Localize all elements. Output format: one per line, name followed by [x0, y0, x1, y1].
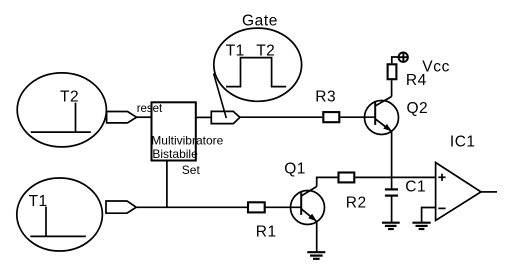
transistor Q1 — [291, 187, 325, 225]
svg-text:Q2: Q2 — [407, 100, 429, 117]
label Bistabile — [152, 147, 198, 161]
net flag gate output — [211, 111, 240, 123]
T2 waveform — [31, 103, 91, 133]
label T1 (gate) — [226, 43, 245, 60]
svg-text:R2: R2 — [346, 195, 367, 212]
svg-text:T1: T1 — [29, 193, 48, 210]
resistor R4 — [388, 64, 397, 79]
wire R1 to Q1 base — [265, 206, 301, 208]
transistor Q2 — [365, 97, 399, 135]
power Vcc symbol — [399, 53, 408, 62]
svg-text:R3: R3 — [315, 89, 336, 106]
ground (op-amp input) — [412, 223, 430, 229]
svg-text:Set: Set — [182, 163, 201, 177]
op-amp plus sign — [438, 174, 445, 181]
label Gate — [242, 12, 278, 29]
svg-text:reset: reset — [137, 103, 163, 115]
multivibrator block U1 — [152, 102, 196, 160]
wire R2 to op-amp input — [355, 176, 435, 178]
label IC1 — [450, 134, 476, 151]
svg-text:Bistabile: Bistabile — [152, 147, 198, 161]
resistor R3 — [323, 112, 339, 122]
wire op-amp inverting input to ground — [422, 208, 436, 223]
svg-text:Vcc: Vcc — [422, 59, 450, 76]
svg-text:Gate: Gate — [242, 12, 278, 29]
label R4 — [406, 72, 427, 89]
Q1 emitter arrow — [308, 214, 317, 222]
wire flag to reset pin — [137, 116, 152, 118]
label T1 — [29, 193, 48, 210]
label C1 — [405, 179, 426, 196]
net flag T2 input — [107, 112, 137, 123]
ground (Q1 emitter) — [307, 252, 325, 259]
label R1 — [256, 223, 277, 240]
svg-text:C1: C1 — [405, 179, 426, 196]
gate annotation bubble — [214, 28, 302, 101]
label R2 — [346, 195, 367, 212]
wire Q2 emitter to C1 node — [391, 131, 393, 189]
wire Q1 collector up to R2 — [317, 177, 338, 186]
resistor R2 — [339, 173, 355, 183]
label Set — [182, 163, 201, 177]
Q2 emitter arrow — [383, 124, 392, 131]
wire flag to R3 — [240, 116, 322, 118]
capacitor C1 — [385, 189, 398, 195]
wire C1 to ground — [391, 196, 393, 223]
label Q2 — [407, 100, 429, 117]
net flag T1 input — [106, 201, 136, 213]
label Multivibratore — [151, 134, 223, 148]
label reset — [137, 103, 163, 115]
node T1 source bubble — [17, 178, 103, 251]
gate pulse waveform — [226, 58, 286, 87]
label Vcc — [422, 59, 450, 76]
wire T1 net — [136, 206, 247, 208]
resistor R1 — [248, 202, 265, 212]
wire Set pin — [166, 161, 168, 207]
gate pointer line — [214, 74, 227, 119]
ground (C1) — [382, 223, 400, 229]
svg-text:IC1: IC1 — [450, 134, 476, 151]
op-amp IC1 — [436, 163, 481, 221]
wire block output — [196, 116, 211, 118]
T1 waveform — [30, 207, 86, 237]
svg-text:Q1: Q1 — [284, 160, 306, 177]
op-amp minus sign — [438, 207, 445, 209]
wire R4 to Vcc — [392, 57, 398, 63]
label T2 — [60, 89, 79, 106]
svg-text:R1: R1 — [256, 223, 277, 240]
wire R3 to Q2 base — [340, 116, 375, 118]
svg-text:T2: T2 — [256, 43, 275, 60]
label Q1 — [284, 160, 306, 177]
wire Q2 collector to R4 — [391, 80, 393, 96]
label R3 — [315, 89, 336, 106]
wire Q1 emitter to ground — [316, 221, 318, 252]
node T2 source bubble — [17, 73, 106, 147]
svg-text:T1: T1 — [226, 43, 245, 60]
svg-text:T2: T2 — [60, 89, 79, 106]
label T2 (gate) — [256, 43, 275, 60]
svg-text:Multivibratore: Multivibratore — [151, 134, 223, 148]
wire op-amp output — [481, 191, 497, 193]
